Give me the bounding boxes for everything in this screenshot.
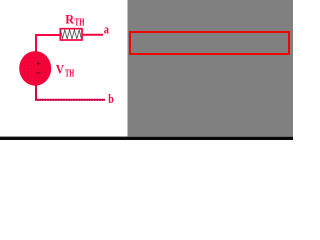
plus sign [37,62,41,66]
svg-text:R: R [65,11,74,26]
svg-text:V: V [56,61,65,76]
voltage source V_TH circle [19,51,51,86]
black bottom band [0,137,293,141]
wire: resistor to terminal a [83,34,104,36]
minus sign [36,72,41,74]
svg-text:b: b [108,91,114,106]
resistor zigzag [61,30,82,39]
wire: vertical from top corner down to source [35,34,37,52]
wire: top horizontal from corner to resistor [35,34,60,36]
gray panel [127,0,293,140]
resistor R_TH box [60,29,82,40]
wire: source bottom down [35,85,37,100]
red selection rectangle [129,31,290,55]
svg-text:a: a [104,22,110,37]
svg-text:TH: TH [75,18,85,29]
wire: bottom horizontal to terminal b [35,99,105,101]
svg-text:TH: TH [65,68,74,79]
